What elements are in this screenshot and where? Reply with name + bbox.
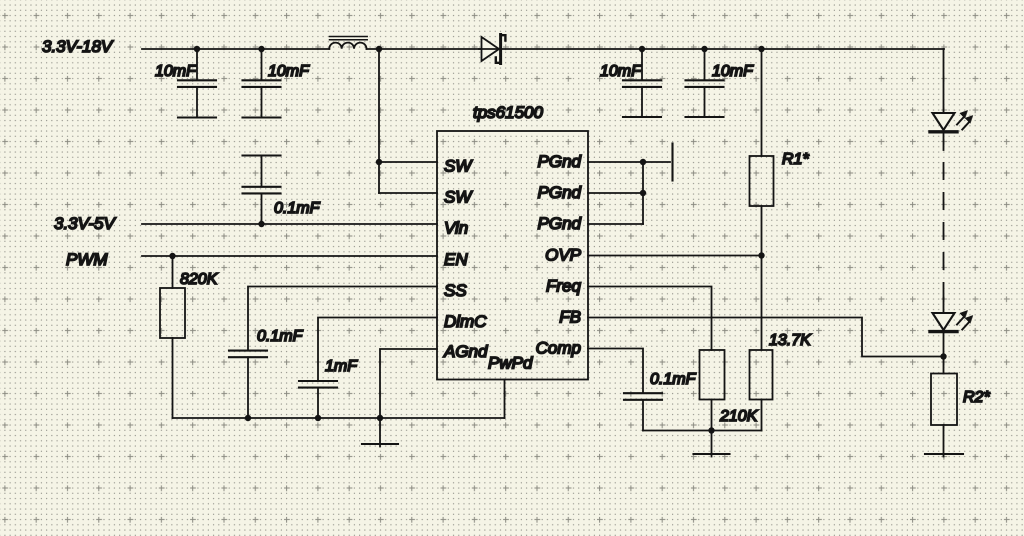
resistor R4 210K [700, 350, 725, 431]
capacitor C3 10mF [623, 49, 661, 117]
capacitor C2 10mF [243, 49, 281, 118]
capacitor C6 0.1mF [229, 351, 267, 418]
wire dashed LED string [943, 150, 945, 313]
svg-text:PGnd: PGnd [538, 214, 582, 233]
wire FB [588, 318, 944, 357]
net label PWM [66, 250, 108, 269]
wire SW node vertical [378, 49, 380, 193]
junction top rail C1 [194, 46, 765, 52]
label C3 10mF [600, 63, 642, 80]
svg-text:3.3V-18V: 3.3V-18V [42, 37, 114, 56]
wire SS [248, 287, 437, 351]
svg-text:1mF: 1mF [325, 358, 358, 375]
label R4 210K [719, 408, 759, 425]
junction comp rail [708, 427, 714, 433]
svg-text:OVP: OVP [545, 246, 582, 265]
wire PGnd pin1 [588, 161, 670, 163]
svg-text:3.3V-5V: 3.3V-5V [54, 214, 116, 233]
wire PGnd pin3 [588, 223, 643, 225]
LED D3 [930, 313, 957, 374]
LED D2 arrows [957, 111, 973, 130]
op-amp U1 tps61500 box [437, 131, 588, 380]
wire DimC [318, 318, 437, 381]
svg-text:FB: FB [559, 308, 581, 327]
wire PGnd bus vertical [642, 162, 644, 224]
pin label Vin [444, 219, 468, 238]
label R3 820K [180, 271, 219, 288]
capacitor C8 0.1mF [624, 393, 662, 430]
diode D1 schottky [479, 35, 505, 64]
label U1 tps61500 [473, 103, 543, 122]
svg-text:13.7K: 13.7K [769, 332, 812, 349]
svg-text:Comp: Comp [536, 339, 581, 358]
wire SW pin 1 [379, 161, 437, 163]
junction SW pins [376, 159, 382, 165]
pin label PGnd 2 [538, 183, 582, 202]
label C5 0.1mF [274, 200, 321, 217]
terminal bar PGnd [671, 144, 673, 181]
pin label SW 2 [444, 188, 473, 207]
label R1* [782, 151, 809, 168]
resistor R2* [931, 374, 957, 457]
net label 3.3V-18V [42, 37, 114, 56]
LED D2 [930, 113, 957, 150]
pin label SW 1 [444, 157, 473, 176]
ground AGnd [362, 418, 398, 447]
ground G2 [694, 431, 730, 457]
net label 3.3V-5V [54, 214, 116, 233]
svg-text:EN: EN [444, 250, 468, 269]
junction PWM R3 [169, 253, 175, 259]
label C2 10mF [268, 63, 310, 80]
svg-text:tps61500: tps61500 [473, 103, 543, 122]
pin label AGnd [443, 342, 488, 361]
pin label SS [444, 281, 467, 300]
junction PGnd bus [640, 159, 646, 196]
wire LED D2 anode stub [943, 49, 945, 113]
capacitor C5 0.1mF [243, 156, 281, 225]
svg-text:PwPd: PwPd [488, 354, 533, 373]
pin label DimC [444, 312, 487, 331]
capacitor C4 10mF [686, 49, 724, 117]
svg-text:10mF: 10mF [268, 63, 310, 80]
svg-text:10mF: 10mF [600, 63, 642, 80]
resistor R5 13.7K [750, 350, 773, 431]
wire AGnd [380, 349, 437, 418]
svg-text:PGnd: PGnd [538, 152, 582, 171]
wire top rail right segment [367, 48, 945, 50]
label C8 0.1mF [650, 371, 697, 388]
svg-text:0.1mF: 0.1mF [257, 328, 304, 345]
label R5 13.7K [769, 332, 812, 349]
svg-text:PWM: PWM [66, 250, 108, 269]
terminal bar C4 [686, 116, 724, 118]
capacitor C1 10mF [178, 49, 216, 118]
svg-text:820K: 820K [180, 271, 219, 288]
junction Vin C5 [258, 221, 264, 227]
svg-text:DimC: DimC [444, 312, 487, 331]
wire Vin 3.3V-5V [142, 223, 437, 225]
svg-text:0.1mF: 0.1mF [274, 200, 321, 217]
svg-text:R2*: R2* [963, 389, 990, 406]
pin label Freq [546, 277, 582, 296]
svg-text:PGnd: PGnd [538, 183, 582, 202]
wire Freq [588, 287, 712, 351]
terminal bar C5 [243, 154, 281, 156]
terminal bar C2 [243, 116, 281, 118]
junction OVP R1 [758, 252, 764, 258]
terminal bar C1 [178, 116, 216, 118]
wire 3.3V-18V top rail left segment [142, 48, 329, 50]
label C4 10mF [712, 63, 754, 80]
svg-text:10mF: 10mF [155, 63, 197, 80]
svg-text:10mF: 10mF [712, 63, 754, 80]
label C6 0.1mF [257, 328, 304, 345]
pin label PwPd [488, 354, 533, 373]
wire PWM to EN [142, 255, 437, 257]
inductor L1 [329, 37, 367, 49]
pin label Comp [536, 339, 581, 358]
wire comp ground rail [643, 430, 762, 432]
resistor R3 820K [160, 256, 185, 418]
svg-text:0.1mF: 0.1mF [650, 371, 697, 388]
label R2* [963, 389, 990, 406]
pin label PGnd 1 [538, 152, 582, 171]
terminal bar C3 [623, 116, 661, 118]
svg-text:SW: SW [444, 157, 473, 176]
pin label PGnd 3 [538, 214, 582, 233]
resistor R1* [750, 49, 774, 350]
svg-text:SS: SS [444, 281, 467, 300]
junction bottom rail [245, 415, 383, 421]
wire OVP [588, 255, 762, 257]
pin label FB [559, 308, 581, 327]
capacitor C7 1mF [299, 381, 337, 418]
svg-text:SW: SW [444, 188, 473, 207]
svg-text:Vin: Vin [444, 219, 468, 238]
wire SW pin 2 [379, 192, 437, 194]
wire PGnd pin2 [588, 192, 643, 194]
svg-text:210K: 210K [719, 408, 759, 425]
wire PwPd stub [504, 380, 506, 419]
svg-text:Freq: Freq [546, 277, 582, 296]
ground G3 [925, 453, 963, 455]
svg-text:AGnd: AGnd [443, 342, 488, 361]
wire bottom ground rail [173, 417, 505, 419]
LED D3 arrows [957, 311, 973, 330]
pin label OVP [545, 246, 582, 265]
svg-text:R1*: R1* [782, 151, 809, 168]
pin label EN [444, 250, 468, 269]
wire Comp [588, 349, 643, 394]
label C7 1mF [325, 358, 358, 375]
junction FB LED [940, 353, 946, 359]
label C1 10mF [155, 63, 197, 80]
